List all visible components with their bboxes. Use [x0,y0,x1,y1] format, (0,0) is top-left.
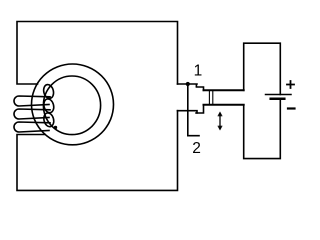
wire: vertical from node 1 to lower throw contact [188,84,199,136]
battery loop: left edge upper + top edge [244,43,281,94]
winding turn 3 loop [42,112,55,128]
switch slider upper step [197,87,204,90]
junction dot node 1 [186,82,190,86]
wire: bottom switch feed [178,111,198,113]
switch bridge bar right [212,90,214,105]
toroid core T1 inner circle [43,76,100,135]
battery B1 short plate (-) [271,98,285,101]
winding turn 1 loop [42,84,55,100]
svg-text:2: 2 [192,140,201,157]
battery loop: left edge lower + bottom edge [244,100,281,159]
winding turn 2 capsule [14,109,50,119]
switch top rail to battery [204,89,244,91]
battery B1 long plate (+) [266,94,292,96]
toroid core T1 outer circle [32,64,114,145]
switch bottom rail to battery [204,104,244,106]
wire: primary loop top/left (top edge, right-edge upper part, left-edge upper part) [17,22,178,85]
junction blob where winding meets inner circle [54,126,57,129]
winding turn 3 capsule [14,122,50,132]
winding turn 2 loop [42,98,55,114]
winding turn 1 capsule [14,96,50,106]
switch slider lower step [196,105,204,113]
wire: top switch feed [178,84,198,87]
arrow: slider motion up/down [218,112,222,130]
wire: primary loop bottom (left-edge lower part, bottom edge, right-edge lower part) [17,111,178,191]
label - (battery negative) [288,107,295,109]
switch bridge bar left [208,90,210,105]
svg-text:1: 1 [194,63,203,80]
label + (battery positive) [287,81,294,88]
